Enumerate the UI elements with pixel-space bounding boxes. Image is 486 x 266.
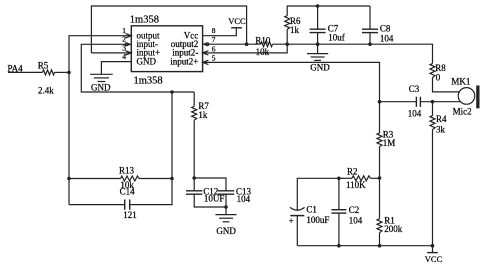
node feedback riser on rail bbox=[245, 42, 249, 46]
svg-text:5: 5 bbox=[212, 53, 216, 62]
svg-text:VCC: VCC bbox=[425, 254, 443, 264]
svg-text:104: 104 bbox=[408, 108, 422, 118]
wire PA4 input bbox=[8, 71, 43, 73]
pin 1 arrow bbox=[126, 34, 132, 38]
power VCC top bar bbox=[231, 27, 242, 29]
svg-text:GND: GND bbox=[216, 226, 236, 236]
wire branch to C13 top bbox=[194, 178, 226, 190]
wire R1 bottom lead bbox=[379, 233, 381, 246]
wire R1 top lead bbox=[379, 178, 381, 219]
resistor R1 200k bbox=[377, 219, 382, 233]
svg-text:+: + bbox=[289, 216, 294, 226]
svg-text:1m358: 1m358 bbox=[130, 14, 159, 25]
node C12/C13 ground junction bbox=[224, 205, 228, 209]
wire C12 bottom to GND junction bbox=[194, 194, 226, 207]
pin 7 arrow bbox=[203, 43, 209, 46]
svg-text:10uf: 10uf bbox=[328, 33, 345, 43]
pin 2 arrow bbox=[125, 43, 131, 46]
node C7 bottom on rail bbox=[316, 42, 320, 46]
wire C3 right to mic lower terminal bbox=[421, 101, 461, 103]
node pin5/C3/R3 junction bbox=[378, 100, 382, 104]
svg-text:110K: 110K bbox=[346, 180, 366, 190]
resistor R10 10k bbox=[261, 42, 273, 47]
microphone MK1 circle bbox=[458, 88, 475, 105]
svg-text:GND: GND bbox=[137, 56, 157, 66]
wire pin6 input2- to R6 bottom riser bbox=[203, 44, 288, 53]
wire C13 bottom bbox=[225, 194, 227, 207]
svg-text:0: 0 bbox=[436, 73, 441, 83]
wire R5 to junction bbox=[55, 71, 70, 73]
wire pin8 Vcc lead bbox=[203, 28, 237, 36]
wire output2 rail to R8 corner bbox=[273, 44, 433, 63]
wire R4 top lead bbox=[432, 102, 434, 116]
node VCC rail corner bbox=[431, 244, 435, 248]
svg-text:R8: R8 bbox=[435, 63, 446, 73]
resistor R13 10k bbox=[121, 176, 140, 181]
svg-text:104: 104 bbox=[349, 215, 363, 225]
wire R8 bottom to mic upper terminal bbox=[433, 78, 460, 92]
capacitor C2 104 bbox=[331, 210, 346, 213]
wire C2 bottom riser bbox=[338, 213, 340, 246]
capacitor C14 121 bbox=[125, 200, 130, 210]
node input- riser junction bbox=[170, 90, 174, 94]
wire R2 right lead bbox=[371, 177, 380, 179]
svg-text:C2: C2 bbox=[349, 205, 360, 215]
wire C7 bottom riser bbox=[317, 33, 319, 45]
resistor R7 1k bbox=[192, 106, 197, 120]
capacitor C1 straight plate bbox=[290, 215, 304, 217]
wire pin4 GND lead bbox=[101, 62, 131, 75]
wire pin7 output2 row bbox=[203, 43, 261, 45]
node C2 bottom bbox=[337, 244, 341, 248]
ground GND below C12/C13 bbox=[215, 207, 236, 222]
wire C14 right to riser up to input- row bbox=[130, 92, 172, 205]
wire C1 bottom lead bbox=[296, 216, 298, 246]
wire C14 bottom loop left bbox=[69, 204, 124, 206]
wire R2 left lead bbox=[339, 177, 352, 179]
svg-text:104: 104 bbox=[237, 194, 251, 204]
capacitor C12 10UF bbox=[186, 191, 202, 194]
capacitor C13 104 bbox=[218, 191, 234, 194]
wire C7 top riser bbox=[317, 6, 319, 29]
svg-text:104: 104 bbox=[380, 33, 394, 43]
wire C8 top riser bbox=[369, 6, 371, 29]
svg-text:100uF: 100uF bbox=[306, 215, 329, 225]
resistor R3 1M bbox=[377, 133, 382, 147]
svg-text:200k: 200k bbox=[384, 224, 403, 234]
capacitor C3 104 bbox=[416, 97, 420, 107]
resistor R6 1k bbox=[285, 16, 290, 30]
svg-text:GND: GND bbox=[91, 83, 111, 93]
svg-text:R13: R13 bbox=[119, 166, 135, 176]
svg-text:Mic2: Mic2 bbox=[453, 107, 472, 117]
node C3/R4/mic junction bbox=[431, 100, 435, 104]
node R1 bottom bbox=[378, 244, 382, 248]
node R7/C12/C13 junction bbox=[192, 176, 196, 180]
resistor R8 0 bbox=[430, 64, 435, 78]
svg-text:1M: 1M bbox=[383, 138, 396, 148]
resistor R4 3k bbox=[430, 116, 435, 130]
svg-text:8: 8 bbox=[212, 26, 216, 35]
ground GND at pin4 bbox=[90, 74, 113, 81]
svg-text:121: 121 bbox=[123, 210, 137, 220]
op-amp U1 box 1m358 bbox=[131, 26, 202, 72]
capacitor C8 104 bbox=[362, 29, 378, 32]
svg-text:1k: 1k bbox=[290, 25, 300, 35]
svg-text:R5: R5 bbox=[38, 60, 49, 70]
svg-text:2.4k: 2.4k bbox=[38, 86, 54, 96]
resistor R2 110K bbox=[352, 176, 371, 181]
svg-text:3k: 3k bbox=[436, 124, 446, 134]
wire R7 bottom to C12 top bbox=[193, 120, 195, 190]
microphone MK1 diaphragm bar bbox=[476, 86, 479, 109]
svg-text:2: 2 bbox=[122, 34, 126, 43]
svg-text:4: 4 bbox=[122, 52, 126, 61]
pin 5 arrow bbox=[203, 60, 209, 64]
svg-text:R2: R2 bbox=[347, 167, 358, 177]
capacitor C1 100uF electrolytic curved plate bbox=[290, 207, 305, 210]
svg-text:input2+: input2+ bbox=[170, 56, 198, 66]
svg-text:C3: C3 bbox=[409, 84, 420, 94]
wire top feedback from input+ riser to output2 node bbox=[91, 6, 246, 53]
wire R6 bottom lead bbox=[286, 29, 288, 44]
wire R13 right lead bbox=[139, 178, 172, 180]
resistor R5 2.4k bbox=[43, 70, 55, 75]
wire bottom VCC rail bbox=[297, 245, 432, 247]
svg-text:C1: C1 bbox=[306, 205, 317, 215]
wire R7 top lead bbox=[193, 92, 195, 106]
svg-text:R10: R10 bbox=[255, 35, 271, 45]
svg-text:R4: R4 bbox=[436, 114, 447, 124]
node C7 top bbox=[316, 4, 320, 8]
svg-text:GND: GND bbox=[310, 63, 330, 73]
svg-text:10k: 10k bbox=[256, 47, 270, 57]
wire C3 left lead bbox=[380, 101, 416, 103]
svg-text:6: 6 bbox=[212, 44, 216, 53]
svg-text:10UF: 10UF bbox=[204, 194, 225, 204]
node R13 left bbox=[67, 177, 71, 181]
power VCC bottom symbol bbox=[427, 246, 438, 253]
wire pin3 input+ bbox=[91, 52, 131, 54]
svg-text:PA4: PA4 bbox=[8, 63, 24, 73]
wire pin5 input2+ long lead bbox=[203, 62, 380, 133]
svg-text:1k: 1k bbox=[198, 110, 208, 120]
svg-text:C14: C14 bbox=[120, 187, 136, 197]
wire C8 bottom riser bbox=[369, 33, 371, 45]
node R6 bottom on rail bbox=[285, 42, 289, 46]
svg-text:VCC: VCC bbox=[228, 16, 246, 26]
svg-text:C8: C8 bbox=[380, 24, 391, 34]
node junction R5/output bbox=[67, 71, 71, 75]
node C2 top junction bbox=[337, 177, 341, 181]
pin 3 arrow bbox=[126, 51, 132, 55]
capacitor C7 10uf bbox=[310, 29, 326, 32]
wire C1 loop top / R2 left lead bbox=[297, 178, 339, 210]
ground GND mid below C7 bbox=[307, 44, 328, 60]
wire R4 bottom to VCC rail bbox=[432, 130, 434, 246]
wire C2 top riser bbox=[338, 178, 340, 209]
wire R13 row bbox=[69, 178, 121, 180]
svg-text:1m358: 1m358 bbox=[134, 75, 163, 86]
wire pin2 input- loop bbox=[81, 44, 194, 92]
node R13 right bbox=[170, 177, 174, 181]
svg-text:MK1: MK1 bbox=[451, 76, 470, 86]
wire R3 bottom lead bbox=[379, 147, 381, 178]
wire pin1 output to left column bbox=[69, 36, 131, 205]
svg-text:7: 7 bbox=[212, 35, 216, 44]
node C8 bottom on rail bbox=[368, 42, 372, 46]
wire top filter node R6/C7/C8 bbox=[287, 6, 370, 16]
pin 6 arrow bbox=[203, 51, 209, 55]
node R3/R2/R1 junction bbox=[378, 176, 382, 180]
